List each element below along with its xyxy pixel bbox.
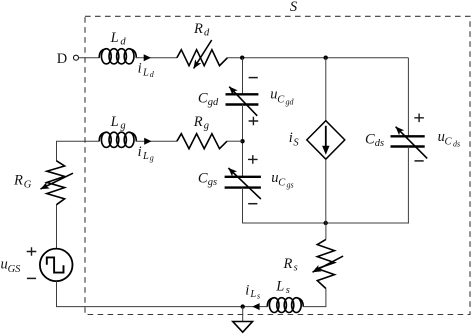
label R_G xyxy=(13,173,32,191)
capacitor C_gd (variable) xyxy=(226,87,259,116)
sign + of u_Cds xyxy=(414,114,424,123)
svg-text:G: G xyxy=(24,179,32,190)
node: gate junction (R_g meets C branch) xyxy=(240,139,244,143)
sign - of u_Cds xyxy=(415,160,424,162)
svg-text:gs: gs xyxy=(287,180,294,189)
label R_g xyxy=(193,114,209,132)
svg-text:C: C xyxy=(198,171,208,187)
resistor R_s (variable) xyxy=(313,239,344,288)
current arrow i_L_d xyxy=(144,54,151,61)
wire: i_S branch lower xyxy=(325,159,327,223)
current arrow i_L_s (points left) xyxy=(252,303,259,310)
svg-text:d: d xyxy=(204,27,210,38)
wire: u_GS bottom to ground rail xyxy=(57,281,268,306)
svg-text:L: L xyxy=(110,30,119,46)
label i_S xyxy=(289,130,300,148)
wire: D terminal to L_d xyxy=(79,57,100,59)
subcircuit boundary S (dashed box) xyxy=(85,16,470,314)
wire: R_d to top rail corner (drain rail) xyxy=(228,57,409,59)
sign + of u_Cgd xyxy=(249,117,259,126)
label u_GS xyxy=(1,257,22,275)
svg-text:R: R xyxy=(193,21,203,37)
wire: L_d to R_d xyxy=(136,57,177,59)
sign + of u_GS xyxy=(27,247,37,256)
label u_Cgs xyxy=(271,170,293,189)
resistor R_g xyxy=(177,134,227,149)
sign - of u_GS xyxy=(27,277,36,279)
label L_s xyxy=(275,279,290,296)
voltage source u_GS (square wave) xyxy=(40,249,73,282)
resistor R_G (variable, gate driver) xyxy=(41,161,74,205)
svg-text:i: i xyxy=(245,282,249,298)
wire: R_G to source u_GS xyxy=(56,205,58,249)
label C_gs xyxy=(198,171,217,189)
svg-text:L: L xyxy=(142,151,149,162)
svg-text:gs: gs xyxy=(208,177,217,188)
svg-text:S: S xyxy=(293,138,299,149)
svg-text:R: R xyxy=(283,256,293,272)
ground xyxy=(233,307,253,333)
svg-text:R: R xyxy=(13,173,23,189)
current source i_S (diamond) xyxy=(307,121,345,160)
svg-text:i: i xyxy=(138,60,142,76)
svg-text:GS: GS xyxy=(8,264,22,275)
svg-text:gd: gd xyxy=(286,97,295,106)
label C_gd xyxy=(198,91,219,109)
node: drain / i_S junction xyxy=(324,56,328,60)
svg-text:gd: gd xyxy=(208,97,219,108)
node: ground junction xyxy=(241,304,245,308)
resistor R_d (variable) xyxy=(177,40,228,69)
svg-text:R: R xyxy=(193,114,203,130)
svg-text:C: C xyxy=(278,178,286,189)
svg-text:C: C xyxy=(277,94,285,105)
svg-text:C: C xyxy=(365,132,375,148)
sign - of u_Cgs xyxy=(248,203,257,205)
label L_g xyxy=(110,114,126,132)
svg-text:L: L xyxy=(249,289,256,300)
wire: L_s to R_s branch xyxy=(303,289,326,307)
svg-text:C: C xyxy=(445,136,453,147)
svg-text:d: d xyxy=(150,70,155,79)
node: source rail / R_s junction xyxy=(324,221,328,225)
svg-text:L: L xyxy=(142,67,149,78)
svg-text:s: s xyxy=(286,285,290,296)
label S xyxy=(290,0,298,15)
wire: left branch top (gate row start) xyxy=(57,141,100,161)
svg-text:S: S xyxy=(290,0,298,15)
node: drain / C_gd junction xyxy=(240,56,244,60)
wire: C_ds branch upper xyxy=(407,58,409,137)
svg-text:L: L xyxy=(110,114,119,130)
sign - of u_Cgd xyxy=(249,77,258,79)
label i_L_s xyxy=(245,282,260,300)
svg-text:D: D xyxy=(57,51,67,67)
inductor L_d xyxy=(99,49,136,64)
inductor L_s xyxy=(267,298,303,313)
svg-text:g: g xyxy=(120,121,125,132)
wire: C_gd to C_gs mid segment (gate node) xyxy=(242,105,244,177)
svg-text:s: s xyxy=(294,262,298,273)
wire: R_g to gate node xyxy=(227,140,243,142)
label C_ds xyxy=(365,132,384,150)
label R_s xyxy=(283,256,298,273)
label L_d xyxy=(110,30,127,48)
svg-text:i: i xyxy=(138,144,142,160)
wire: C_gd branch upper segment xyxy=(242,58,244,95)
label i_L_g xyxy=(138,144,154,163)
label i_L_d xyxy=(138,60,155,79)
wire: bottom rail (C_gs corner to C_ds corner) xyxy=(242,222,409,224)
sign + of u_Cgs xyxy=(248,155,258,164)
label u_Cds xyxy=(438,129,461,148)
svg-text:ds: ds xyxy=(375,138,384,149)
svg-text:ds: ds xyxy=(453,139,460,148)
wire: L_g to R_g xyxy=(136,140,177,142)
svg-text:C: C xyxy=(198,91,208,107)
svg-text:d: d xyxy=(120,37,126,48)
svg-text:g: g xyxy=(204,120,209,131)
wire: C_gs to bottom rail xyxy=(242,188,244,223)
label R_d xyxy=(193,21,210,39)
capacitor C_ds (variable) xyxy=(391,127,428,159)
wire: C_ds to bottom rail xyxy=(407,147,409,224)
svg-text:L: L xyxy=(275,279,284,295)
inductor L_g xyxy=(99,132,136,147)
svg-text:g: g xyxy=(150,154,154,163)
wire: i_S branch upper xyxy=(325,58,327,121)
svg-text:i: i xyxy=(289,130,293,146)
terminal D xyxy=(57,51,79,67)
current arrow i_L_g xyxy=(144,138,151,145)
capacitor C_gs (variable) xyxy=(225,168,261,199)
svg-text:s: s xyxy=(257,291,260,300)
wire: R_s to bottom rail xyxy=(325,223,327,239)
label u_Cgd xyxy=(270,87,294,107)
